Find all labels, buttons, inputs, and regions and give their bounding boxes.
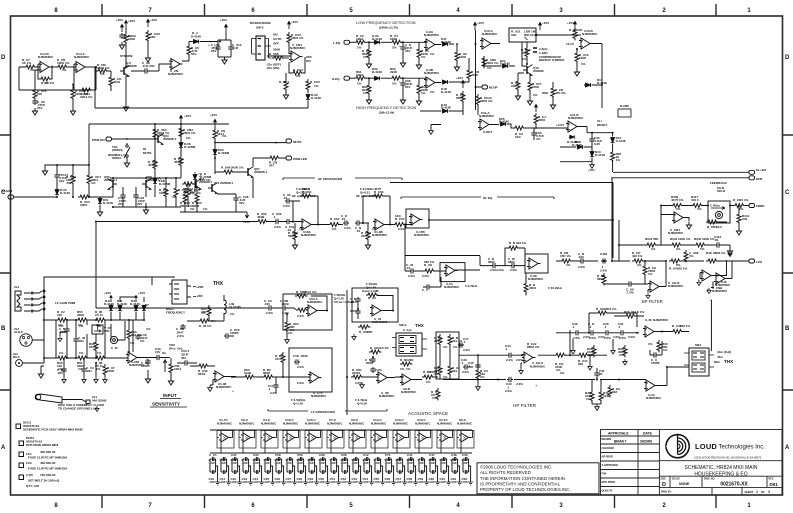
- svg-text:6800: 6800: [508, 260, 515, 264]
- svg-text:1%: 1%: [44, 81, 49, 85]
- svg-text:100 1%: 100 1%: [680, 324, 690, 328]
- svg-text:2.0%: 2.0%: [463, 348, 470, 352]
- svg-text:HP FILTER: HP FILTER: [513, 403, 537, 408]
- connector L-DET: [344, 40, 350, 44]
- LDR box (compressor): [509, 28, 536, 42]
- ground under R_UU6: [145, 55, 150, 62]
- cap C_O2: [343, 220, 349, 225]
- resistor R_UC7 vertical: [87, 173, 91, 185]
- svg-text:+15v: +15v: [243, 220, 250, 224]
- svg-text:.1UF: .1UF: [209, 480, 216, 484]
- svg-text:.1UF: .1UF: [429, 461, 436, 465]
- svg-text:REV.: REV.: [769, 478, 775, 481]
- resistor R_CO3 vertical w/gnd: [366, 229, 370, 241]
- svg-text:.022: .022: [578, 255, 584, 259]
- svg-text:.1UF: .1UF: [418, 461, 425, 465]
- svg-text:2.0%: 2.0%: [177, 334, 184, 338]
- svg-text:BP FILTER: BP FILTER: [642, 299, 663, 304]
- resistor R_U07 below: [358, 325, 370, 329]
- relay box outer: [396, 333, 422, 356]
- big mute box rails: [89, 124, 229, 165]
- long signal wire into crossover: [96, 222, 267, 309]
- svg-text:NJM4565C: NJM4565C: [216, 385, 232, 389]
- svg-text:R344: R344: [645, 237, 653, 241]
- diode D14: [577, 145, 584, 149]
- svg-text:2.0%: 2.0%: [422, 274, 429, 278]
- svg-text:2.0%: 2.0%: [462, 370, 469, 374]
- svg-text:1%: 1%: [140, 339, 145, 343]
- caps row into THX (C36 CO C26 C31): [556, 332, 639, 334]
- svg-text:D-4148: D-4148: [595, 153, 605, 157]
- long wire top y182 from x390 to x613: [390, 182, 613, 184]
- svg-text:2.0%: 2.0%: [283, 204, 290, 208]
- resistor R_CU vertical above: [187, 44, 191, 56]
- vertical bus into feedback: [660, 206, 662, 246]
- svg-text:+15V: +15V: [477, 21, 485, 25]
- svg-text:.1UF: .1UF: [209, 461, 216, 465]
- resistor R95 vertical: [611, 150, 615, 162]
- svg-text:NJM4565C: NJM4565C: [311, 394, 327, 398]
- svg-text:.1: .1: [461, 361, 464, 365]
- svg-text:80m: 80m: [714, 360, 720, 364]
- svg-text:150K: 150K: [532, 85, 540, 89]
- jumper pads compressor: [533, 48, 537, 52]
- diode D_M: [442, 109, 449, 113]
- svg-text:B: B: [785, 326, 790, 332]
- resistor R_U5 vertical w/gnd: [417, 47, 421, 59]
- capacitor C_U8: [143, 68, 149, 73]
- ground under D61: [97, 209, 102, 216]
- svg-text:1%: 1%: [421, 91, 426, 95]
- cap column 23: [452, 457, 462, 485]
- cap C_U8 100PF right: [224, 333, 230, 338]
- svg-text:.39: .39: [714, 238, 718, 242]
- op-amp U08 in box: [525, 254, 548, 273]
- svg-text:NJM4565C: NJM4565C: [568, 116, 584, 120]
- svg-text:.1UF: .1UF: [440, 461, 447, 465]
- diode D_W: [442, 80, 449, 84]
- svg-text:1%: 1%: [363, 91, 368, 95]
- diode D13 vertical: [590, 151, 594, 158]
- svg-text:C09: C09: [341, 453, 347, 457]
- svg-text:.1UF: .1UF: [440, 480, 447, 484]
- cap C_U34 under row2: [81, 367, 86, 373]
- svg-text:294 1%: 294 1%: [452, 339, 462, 343]
- svg-text:X20: X20: [742, 217, 748, 221]
- op-amp U_04b: [370, 305, 384, 316]
- box: [352, 288, 398, 322]
- resistor R_U85 after U16A: [311, 224, 328, 226]
- svg-text:2.0%: 2.0%: [350, 309, 357, 313]
- svg-text:NJM4565C: NJM4565C: [482, 32, 498, 36]
- svg-text:1%: 1%: [230, 312, 235, 316]
- inductor L09: [224, 300, 226, 314]
- op-amp U_CH8: [522, 352, 536, 363]
- svg-text:U-46: U-46: [645, 318, 652, 322]
- svg-text:HF CROSSOVER: HF CROSSOVER: [318, 177, 343, 181]
- svg-text:1%: 1%: [172, 195, 177, 199]
- cap column 21: [430, 457, 440, 485]
- grounding-tool note icon: [36, 394, 62, 403]
- cap column 11: [320, 457, 330, 485]
- svg-text:D-4148: D-4148: [104, 302, 114, 306]
- resistor R61: [354, 76, 366, 80]
- svg-text:MUTE: MUTE: [293, 140, 302, 144]
- svg-text:X APPROVED: X APPROVED: [602, 463, 619, 467]
- svg-text:NJM4565C: NJM4565C: [38, 55, 54, 59]
- resistor row2 R_08: [94, 356, 106, 360]
- +15V over R_CC6: [288, 21, 291, 29]
- svg-text:DATE: DATE: [643, 432, 653, 436]
- bus vertical: [475, 30, 477, 110]
- ground under C_U6: [32, 108, 37, 115]
- svg-text:1%: 1%: [372, 227, 377, 231]
- svg-text:2 (R): 2 (R): [26, 473, 33, 477]
- cap column 1: [210, 457, 220, 485]
- LED D_O: [193, 174, 197, 181]
- cap column 4: [243, 457, 253, 485]
- svg-text:4K75: 4K75: [374, 187, 382, 191]
- svg-text:D-4148: D-4148: [572, 143, 582, 147]
- cap C35 electrolytic at U11B out: [589, 137, 594, 143]
- svg-text:1%: 1%: [676, 207, 681, 211]
- resistor R_CC4 vertical: [284, 79, 288, 91]
- svg-text:1%: 1%: [190, 207, 195, 211]
- svg-text:.1: .1: [273, 215, 276, 219]
- svg-text:2N5088-1: 2N5088-1: [104, 178, 118, 182]
- arrow down from switch: [124, 160, 129, 167]
- svg-text:.1UF: .1UF: [341, 480, 348, 484]
- svg-text:2N5088-1: 2N5088-1: [146, 178, 160, 182]
- svg-text:1%: 1%: [522, 57, 527, 61]
- cap C123: [133, 193, 138, 199]
- wire from HF EQ into row: [611, 220, 613, 261]
- svg-text:OPEN: OPEN: [112, 156, 121, 160]
- svg-text:+15v: +15v: [588, 168, 595, 172]
- feedback resistor R_U8b over biquad2: [369, 350, 381, 354]
- svg-text:247: 247: [269, 164, 274, 168]
- cap C484: [601, 258, 607, 263]
- cap C_U3: [135, 334, 140, 340]
- svg-text:C41: C41: [407, 453, 413, 457]
- svg-text:NJM4565C: NJM4565C: [349, 421, 365, 425]
- svg-text:20K0 1%: 20K0 1%: [291, 36, 304, 40]
- extra vertical mesh wires input rows: [44, 309, 133, 363]
- resistor R_CN: [56, 65, 68, 69]
- item SCH1: [16, 424, 21, 429]
- resistor R_C62 between stages: [328, 223, 340, 227]
- svg-text:Q-4: Q-4: [214, 181, 219, 185]
- svg-text:OFF: OFF: [273, 42, 279, 46]
- cap C_C69: [274, 219, 280, 224]
- cap column 3: [232, 457, 242, 485]
- svg-text:.1UF: .1UF: [308, 480, 315, 484]
- svg-text:1%: 1%: [357, 46, 362, 50]
- connector SW5 boxer (3-pin jumper box): [256, 36, 265, 60]
- svg-text:.1 5%: .1 5%: [626, 291, 634, 295]
- svg-text:1%: 1%: [426, 380, 431, 384]
- resistor R_N 20K under box: [400, 362, 412, 366]
- svg-text:20K4: 20K4: [529, 286, 537, 290]
- svg-text:UL5C4B: UL5C4B: [229, 305, 242, 309]
- wire ladder to U9A: [419, 42, 426, 82]
- feedback bus under chain: [52, 67, 72, 98]
- svg-text:1%: 1%: [536, 137, 541, 141]
- svg-text:SW-5: SW-5: [256, 26, 264, 30]
- transistor Q07: [192, 179, 202, 190]
- feedback resistor R_U8: [39, 77, 51, 81]
- op-amp U_CR4: [672, 212, 686, 223]
- resistor R_U1K vertical below: [436, 388, 440, 400]
- svg-text:SCHEMATIC PCB ASSY HR824 MKII: SCHEMATIC PCB ASSY HR824 MKII MAIN: [23, 428, 83, 432]
- svg-text:.01: .01: [356, 229, 360, 233]
- svg-text:D-4148: D-4148: [500, 62, 510, 66]
- svg-text:FDBK: FDBK: [756, 204, 765, 208]
- svg-text:.0039: .0039: [281, 302, 289, 306]
- wire y245: [619, 244, 645, 246]
- svg-text:18K2 1%: 18K2 1%: [604, 307, 617, 311]
- resistor R_U77 vertical under row2: [103, 364, 107, 376]
- trimpot VR6 box: [92, 325, 103, 334]
- resistor R_U05 vertical: [33, 88, 37, 100]
- svg-text:243K: 243K: [390, 37, 398, 41]
- svg-text:NJM4565C: NJM4565C: [668, 284, 684, 288]
- ground under R45: [595, 404, 600, 410]
- svg-text:PCB MAIN HR824 MKII: PCB MAIN HR824 MKII: [26, 443, 58, 447]
- emitter bus: [210, 452, 472, 454]
- resistor R_CR vertical: [467, 68, 471, 80]
- resistor R406: [671, 204, 683, 208]
- svg-text:.1UF: .1UF: [330, 461, 337, 465]
- resistor R_CB 15K: [560, 259, 572, 263]
- svg-text:1K00: 1K00: [244, 371, 252, 375]
- +15V flag col7: [121, 24, 124, 32]
- svg-text:NJM4565C: NJM4565C: [528, 277, 544, 281]
- svg-text:1%: 1%: [651, 247, 656, 251]
- svg-text:.1UF: .1UF: [341, 461, 348, 465]
- cap column 9: [298, 457, 308, 485]
- svg-text:1%: 1%: [430, 90, 435, 94]
- svg-text:+15V: +15V: [291, 20, 299, 24]
- svg-text:AUTO: AUTO: [273, 37, 282, 41]
- ground flag above row: [728, 251, 732, 257]
- transistor Q03: [154, 134, 164, 145]
- svg-text:2.0%: 2.0%: [297, 314, 304, 318]
- op-amp U_C46: [700, 270, 714, 281]
- diode D17: [585, 83, 592, 87]
- resistor R_CO 18K top: [596, 311, 608, 315]
- wires boxer caps: [218, 32, 231, 57]
- resistor R_CC5 vertical: [306, 79, 310, 91]
- svg-text:NJM4565C: NJM4565C: [261, 421, 277, 425]
- svg-text:C47: C47: [429, 453, 435, 457]
- grounds row under: [571, 348, 575, 354]
- svg-text:100K: 100K: [159, 191, 167, 195]
- op-amp U_CN top right: [169, 59, 183, 70]
- cap C63 electrolytic on wire: [183, 360, 189, 365]
- svg-text:R_N: R_N: [509, 241, 516, 245]
- top bus wire from inputs to THX relay: [44, 277, 175, 309]
- transistor Q08: [142, 179, 152, 190]
- svg-text:.1UF 50V: .1UF 50V: [142, 64, 156, 68]
- svg-text:1K 1%: 1K 1%: [22, 61, 31, 65]
- svg-text:©2006 LOUD TECHNOLOGIES INC.: ©2006 LOUD TECHNOLOGIES INC.: [480, 465, 552, 470]
- diode D_R2: [118, 305, 122, 312]
- svg-text:10K5: 10K5: [80, 203, 88, 207]
- svg-text:FUSE CLIP PC MT 5MM DIA: FUSE CLIP PC MT 5MM DIA: [28, 456, 68, 460]
- svg-text:NJM4565C: NJM4565C: [372, 320, 388, 324]
- op-amp U_U top right: [714, 273, 728, 284]
- cap column 24: [463, 457, 473, 485]
- svg-text:1%: 1%: [79, 351, 84, 355]
- resistor R_HC vertical w/gnd: [455, 50, 459, 62]
- diode D60: [374, 76, 381, 80]
- wire HFB: [611, 178, 749, 261]
- svg-text:2.0%: 2.0%: [355, 381, 362, 385]
- svg-text:D01: D01: [770, 482, 779, 487]
- svg-text:402 1%: 402 1%: [632, 254, 642, 258]
- out wire + vertical bus from U10B: [592, 44, 602, 109]
- resistor R_CN vertical left: [602, 273, 606, 285]
- resistor R_U66 input: [256, 220, 268, 224]
- svg-text:10K0 1%: 10K0 1%: [57, 61, 70, 65]
- svg-text:NJM4565C: NJM4565C: [457, 421, 473, 425]
- cap C_U6b + R_U66 vertical pair under opamp row: [145, 359, 150, 365]
- svg-text:.1UF: .1UF: [363, 480, 370, 484]
- +15V mid: [462, 80, 465, 88]
- diode D06: [55, 189, 59, 196]
- svg-text:HIGH FREQUENCY DETECTION: HIGH FREQUENCY DETECTION: [356, 105, 416, 110]
- svg-text:2K00 1%: 2K00 1%: [231, 166, 244, 170]
- resistor R441 vertical w/gnd: [737, 212, 741, 224]
- svg-text:2.0%: 2.0%: [516, 382, 523, 386]
- svg-text:(≥8k ≤1.6k): (≥8k ≤1.6k): [379, 111, 394, 115]
- cap column 18: [397, 457, 407, 485]
- diode D4: [134, 305, 138, 312]
- resistor R_CC21 vertical: [461, 91, 465, 103]
- svg-text:D-4148: D-4148: [191, 34, 201, 38]
- +15V over C_U11: [225, 24, 228, 32]
- +15V rail right mute: [214, 119, 217, 127]
- resistor R_U9 vertical: [124, 32, 128, 44]
- ground at U_C46: [697, 280, 701, 286]
- svg-text:IS PROPRIETARY AND CONFIDENTIA: IS PROPRIETARY AND CONFIDENTIAL: [480, 481, 561, 486]
- resistor R_UU6 vertical: [146, 30, 150, 42]
- svg-text:NJM4565C: NJM4565C: [301, 233, 317, 237]
- capacitor C06 electrolytic: [531, 131, 536, 137]
- svg-text:.1UF: .1UF: [330, 480, 337, 484]
- svg-text:C-DET: C-DET: [483, 130, 492, 134]
- cap C_46 .001: [73, 337, 78, 343]
- svg-text:D-4148: D-4148: [103, 201, 113, 205]
- resistor R_C8 vertical: [643, 264, 647, 276]
- svg-text:.1UF: .1UF: [319, 480, 326, 484]
- resistor R_N5 20K below: [524, 282, 528, 294]
- svg-text:.1UF: .1UF: [231, 461, 238, 465]
- cap C_O: [589, 330, 595, 335]
- svg-text:2N5088-1: 2N5088-1: [163, 137, 177, 141]
- svg-text:C33: C33: [462, 453, 468, 457]
- svg-text:.1UF: .1UF: [232, 46, 239, 50]
- connector FDBK: [749, 204, 755, 208]
- svg-text:.1UF: .1UF: [451, 461, 458, 465]
- resistor R_B1 1K47 vertical: [281, 352, 285, 364]
- svg-text:R_U8: R_U8: [370, 346, 378, 350]
- svg-text:C12: C12: [363, 453, 369, 457]
- wire input from left: [19, 67, 75, 90]
- svg-text:1%: 1%: [616, 158, 621, 162]
- svg-text:10K4: 10K4: [174, 367, 182, 371]
- op-amp U04 in box: [440, 263, 465, 282]
- svg-text:.1UF: .1UF: [297, 461, 304, 465]
- svg-text:.1UF: .1UF: [385, 461, 392, 465]
- XLR connector: [20, 334, 32, 346]
- svg-text:.1UF: .1UF: [264, 461, 271, 465]
- cap C66 electrolytic w/gnd: [400, 81, 405, 87]
- svg-text:1%: 1%: [159, 133, 164, 137]
- svg-text:4K75 1%: 4K75 1%: [671, 198, 684, 202]
- svg-text:On: On: [162, 351, 166, 355]
- vertical from top x570: [569, 330, 571, 355]
- svg-text:+15V: +15V: [104, 291, 112, 295]
- svg-text:DRAWN: DRAWN: [602, 437, 612, 441]
- svg-text:TO CHANGE GROUND LUG: TO CHANGE GROUND LUG: [58, 407, 98, 411]
- svg-text:1%: 1%: [443, 345, 448, 349]
- svg-text:1%: 1%: [406, 367, 411, 371]
- svg-text:D-4148: D-4148: [117, 302, 127, 306]
- svg-text:R_N5: R_N5: [400, 358, 408, 362]
- op-amp U108: [213, 371, 227, 382]
- resistor R_C4 vertical w/+15: [534, 113, 538, 125]
- svg-text:+15V: +15V: [150, 18, 158, 22]
- svg-text:D-4CM8: D-4CM8: [218, 151, 230, 155]
- svg-text:2.0%: 2.0%: [516, 358, 523, 362]
- resistor R_U44 953: [577, 353, 589, 357]
- ground under R_CC4: [283, 92, 288, 99]
- item PCB1: [19, 441, 24, 446]
- wire opamp out: [87, 66, 95, 68]
- zone letters left: [1, 55, 6, 451]
- svg-text:D7: D7: [145, 303, 149, 307]
- ground under note: [95, 406, 99, 412]
- cap C_U33 under row2: [61, 367, 66, 373]
- svg-text:1%: 1%: [581, 62, 586, 66]
- svg-text:SET MELT 3H 120VxQ: SET MELT 3H 120VxQ: [28, 479, 60, 483]
- svg-text:+15V: +15V: [567, 21, 575, 25]
- resistor R64 vertical w/gnd: [417, 83, 421, 95]
- svg-text:C: C: [785, 190, 790, 196]
- svg-text:1%: 1%: [296, 74, 301, 78]
- svg-text:1%: 1%: [619, 353, 624, 357]
- svg-text:100K 1%: 100K 1%: [702, 237, 715, 241]
- cap C43 on y379: [507, 377, 513, 382]
- resistor R_C38 100: [671, 330, 683, 334]
- svg-text:1%: 1%: [739, 207, 744, 211]
- svg-text:1%: 1%: [586, 397, 591, 401]
- svg-text:16220 WOOD-RED ROAD NE, WOODIN: 16220 WOOD-RED ROAD NE, WOODINVILLE WA 9…: [694, 456, 762, 460]
- svg-text:20K0: 20K0: [77, 313, 85, 317]
- resistor R36 vertical w gnd: [592, 345, 596, 357]
- resistor R_UU5 vertical: [195, 192, 199, 204]
- cap column 2: [221, 457, 231, 485]
- svg-text:.1UF: .1UF: [451, 480, 458, 484]
- resistor R_U64 vertical on x155: [153, 127, 157, 139]
- svg-text:NJM4565C: NJM4565C: [415, 421, 431, 425]
- zone letters right: [785, 55, 790, 451]
- PWR-ON connector: [106, 137, 112, 141]
- svg-text:10K: 10K: [150, 35, 156, 39]
- svg-text:NJM4565C: NJM4565C: [393, 421, 409, 425]
